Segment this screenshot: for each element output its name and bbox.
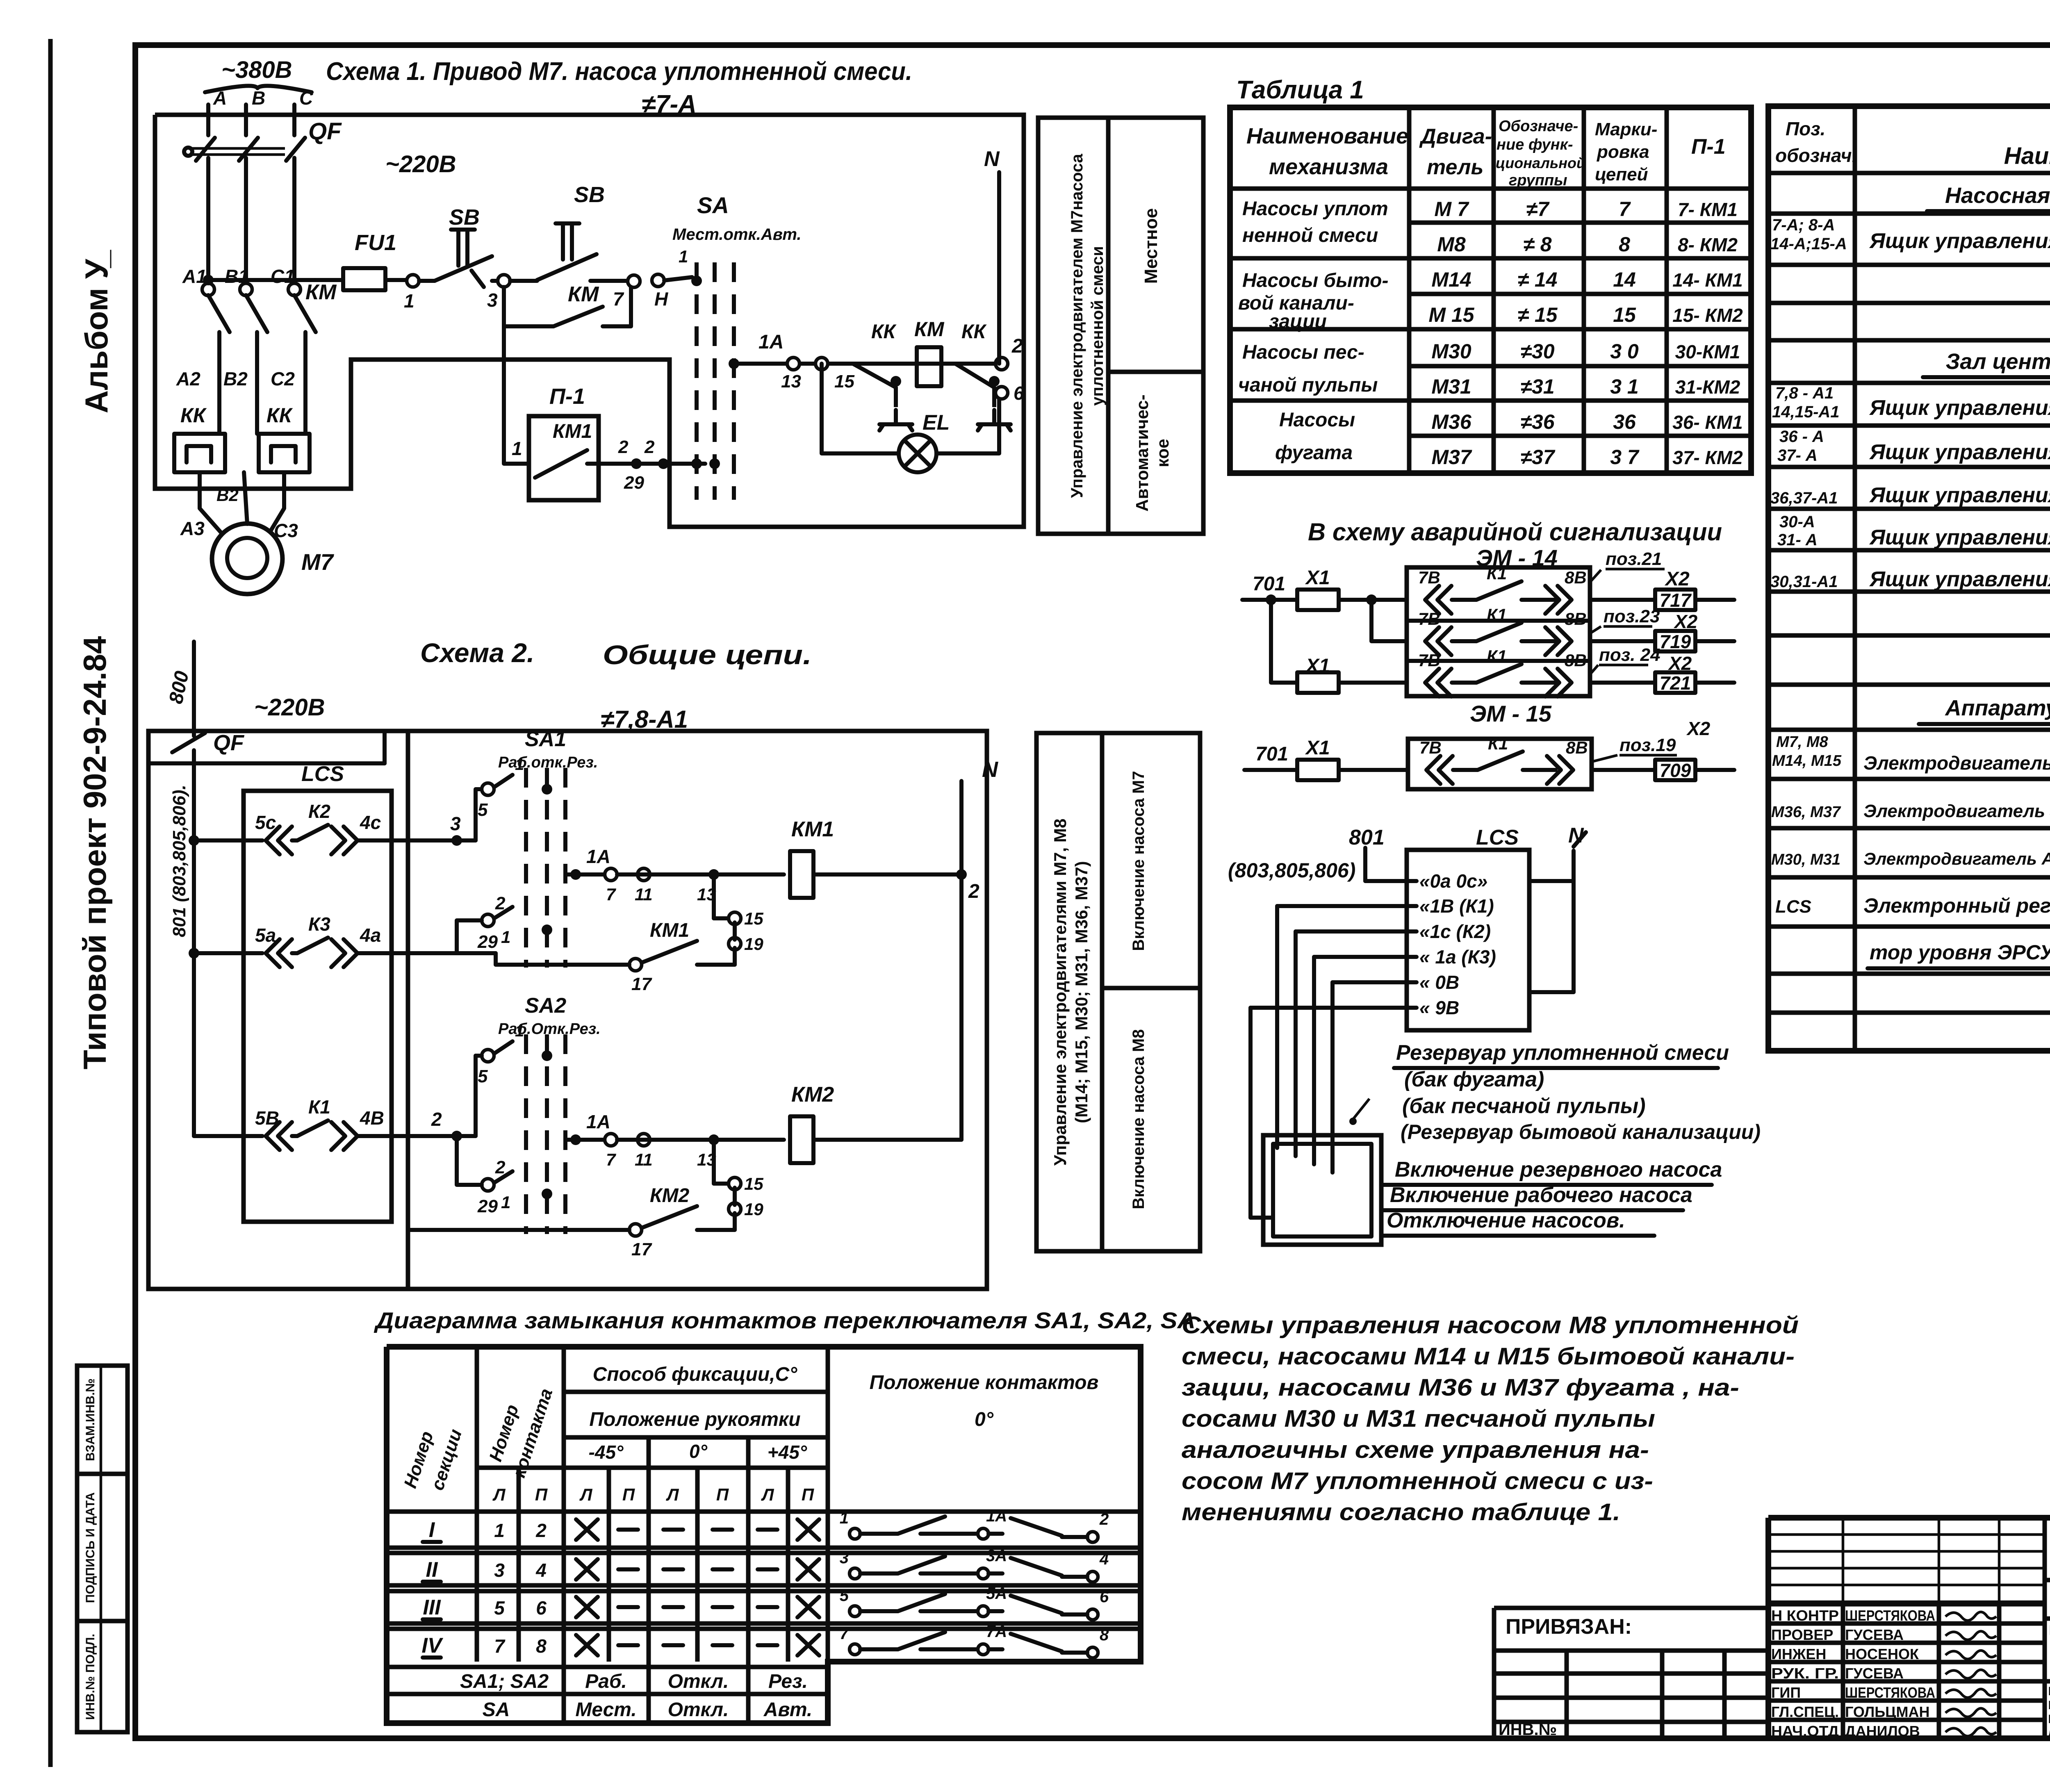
svg-text:37- А: 37- А [1777,446,1818,465]
svg-text:Схемы управления насосом М8: Схемы управления насосом М8 уплотненной [1182,1312,1799,1339]
svg-text:≠ 8: ≠ 8 [1523,233,1551,256]
svg-text:Электродвигатель 4А-100L-4; 4: Электродвигатель 4А-100L-4; 4кВт;~380В [1863,752,2050,774]
branch 15 19 km2 [712,1140,716,1184]
svg-text:Наименование: Наименование [1246,124,1408,148]
svg-text:1: 1 [404,290,415,312]
svg-text:С1: С1 [271,266,295,287]
sidebar scheme1 box [1038,118,1203,534]
svg-text:НАЯ ЭЛЕКТРИЧЕСКАЯ ПРИНЦИПИАЛЬ-: НАЯ ЭЛЕКТРИЧЕСКАЯ ПРИНЦИПИАЛЬ- [2048,1685,2050,1698]
svg-text:7: 7 [840,1625,850,1643]
svg-text:Откл.: Откл. [668,1699,729,1721]
svg-text:7: 7 [613,288,624,310]
relay EM-14 box [1407,567,1590,696]
svg-text:3: 3 [450,813,461,834]
svg-text:Управление электродвигателем М: Управление электродвигателем М7насоса [1068,154,1086,498]
svg-text:ЛИЗАЦИИ М14,М15, ПЕСЧАНОЙ ПУЛЬ: ЛИЗАЦИИ М14,М15, ПЕСЧАНОЙ ПУЛЬПЫ М30, [2048,1726,2050,1740]
svg-text:Ящик управления ЯУ5 117-03А2: Ящик управления ЯУ5 117-03А2Р [1869,229,2050,253]
node 3 [498,275,510,287]
svg-text:зации: зации [1269,311,1327,332]
wire to motor A3 [200,472,221,533]
title block outline [1768,1515,2050,1521]
svg-text:5с: 5с [255,812,276,833]
wire P-1 drop [504,326,529,464]
svg-text:сосом М7 уплотненной смеси: сосом М7 уплотненной смеси с из- [1182,1468,1653,1494]
svg-text:С: С [299,87,313,109]
svg-text:17: 17 [631,974,652,994]
svg-text:Схема 2.: Схема 2. [420,638,534,668]
wire to motor C3 [271,472,284,531]
svg-text:М8: М8 [1437,233,1466,256]
svg-text:уплотненной смеси: уплотненной смеси [1089,246,1107,406]
svg-text:КК: КК [266,404,293,427]
sidebar scheme2 box [1036,733,1200,1251]
svg-text:НАЯ УПРАВЛЕНИЯ НАСОСАМИ УПЛОТ-: НАЯ УПРАВЛЕНИЯ НАСОСАМИ УПЛОТ- [2048,1699,2050,1712]
node 2 SA2 [482,1179,494,1191]
svg-text:36,37-А1: 36,37-А1 [1770,489,1838,507]
wire B2 drop [255,332,259,434]
svg-text:П-1: П-1 [1691,135,1726,159]
svg-text:4: 4 [535,1560,547,1581]
svg-text:6: 6 [1100,1588,1109,1606]
svg-text:П: П [535,1485,548,1504]
svg-text:4а: 4а [360,924,381,946]
wire motor B2 [244,472,247,524]
svg-text:4: 4 [1099,1550,1109,1568]
svg-text:ВЗАМ.ИНВ.№: ВЗАМ.ИНВ.№ [84,1378,97,1461]
contact K1 row3 [1425,669,1451,697]
node 7 [628,275,640,287]
svg-text:LCS: LCS [1775,897,1811,917]
node 13 [787,357,799,370]
svg-text:М14, М15: М14, М15 [1772,752,1842,770]
svg-text:поз.19: поз.19 [1619,735,1676,755]
svg-text:8В: 8В [1565,568,1587,587]
svg-text:поз. 24: поз. 24 [1599,645,1660,665]
svg-text:-45°: -45° [589,1441,624,1463]
svg-text:менениями согласно таблице 1: менениями согласно таблице 1. [1182,1499,1620,1526]
svg-text:« 1а (К3): « 1а (К3) [1419,946,1496,968]
QF compartment line [148,761,385,765]
svg-text:« 9В: « 9В [1419,997,1459,1018]
svg-text:А1: А1 [182,266,207,287]
wire phase B [244,158,248,287]
svg-text:SA: SA [483,1699,510,1721]
svg-text:~220В: ~220В [385,151,456,178]
feeder wire 801 [192,750,196,1136]
svg-text:Электродвигатель АО2-31-4; 2,: Электродвигатель АО2-31-4; 2,2 кВт; ~380… [1863,849,2050,868]
scheme 1 enclosure box [155,115,1024,527]
svg-text:Включение насоса М7: Включение насоса М7 [1130,771,1148,951]
svg-text:3А: 3А [986,1547,1007,1565]
svg-text:Наименование: Наименование [2004,143,2050,169]
parts table rows [1768,212,2050,216]
svg-text:1: 1 [512,438,522,459]
wire C2 drop [303,332,307,434]
svg-text:кое: кое [1153,439,1172,467]
svg-text:цепей: цепей [1595,164,1648,184]
svg-text:К1: К1 [1487,564,1507,583]
svg-text:~380В: ~380В [221,57,292,83]
lcs left feeders [1277,904,1417,908]
svg-text:14- КМ1: 14- КМ1 [1672,269,1742,291]
svg-text:30,31-А1: 30,31-А1 [1770,573,1838,591]
wire row2 to SA1 [457,920,482,953]
svg-text:А2: А2 [176,368,200,389]
svg-text:14: 14 [1613,268,1636,291]
title block name rows [1768,1602,2045,1607]
svg-text:А: А [213,87,227,109]
svg-text:1А: 1А [758,331,784,353]
svg-text:Ящик управления ЯУ5117-03А2Р: Ящик управления ЯУ5117-03А2Р [1869,440,2050,464]
svg-text:29: 29 [624,473,644,493]
title block TP cell [2045,1578,2050,1583]
svg-text:Ящик управления ЯУ5120-03А2А: Ящик управления ЯУ5120-03А2А [1869,567,2050,591]
svg-text:SA2: SA2 [525,994,566,1018]
wire phase C [292,158,296,287]
motor M7 [212,524,282,594]
svg-text:8В: 8В [1565,609,1587,628]
svg-text:Двига-: Двига- [1419,125,1492,148]
node 11 km1 [638,868,650,881]
svg-text:8- КМ2: 8- КМ2 [1678,234,1738,255]
svg-text:Л: Л [666,1485,679,1504]
svg-text:М14: М14 [1431,268,1471,291]
svg-text:М7, М8: М7, М8 [1776,733,1829,751]
svg-text:К1: К1 [308,1096,330,1118]
svg-text:КМ1: КМ1 [791,817,834,841]
svg-text:Альбом У̲: Альбом У̲ [78,250,114,414]
contact K1 row2 [1425,627,1451,655]
svg-text:15- КМ2: 15- КМ2 [1672,305,1743,326]
svg-text:тель: тель [1427,155,1483,179]
node 11 km2 [638,1134,650,1146]
svg-text:К3: К3 [308,913,330,935]
feeder drop scheme2 [192,642,196,736]
svg-text:смеси, насосами М14 и М15 бы: смеси, насосами М14 и М15 бытовой канали… [1182,1343,1795,1370]
svg-text:Насосы: Насосы [1279,409,1355,431]
svg-text:8В: 8В [1565,651,1587,670]
svg-text:1: 1 [840,1509,849,1527]
svg-text:М37: М37 [1431,446,1472,469]
svg-text:29: 29 [477,932,498,952]
node A1 [202,283,214,296]
svg-text:Зал центрифуг: Зал центрифуг [1946,349,2050,374]
branch to row3 [1266,594,1276,605]
svg-text:0°: 0° [689,1441,708,1462]
svg-text:≠30: ≠30 [1520,340,1554,363]
svg-text:3: 3 [840,1549,849,1567]
svg-text:1А: 1А [586,1111,610,1132]
relay EM-15 box [1408,739,1592,789]
svg-text:30-А: 30-А [1779,513,1815,531]
svg-text:КК: КК [180,404,207,427]
svg-text:7- КМ1: 7- КМ1 [1678,199,1738,220]
svg-text:В2: В2 [216,485,239,505]
svg-text:I: I [429,1518,435,1542]
svg-text:КМ2: КМ2 [650,1185,689,1207]
svg-text:7: 7 [494,1635,506,1657]
branch to row2 [1366,594,1377,605]
svg-text:11: 11 [635,885,653,904]
svg-text:Ящик управления ЯУ5117-03А 2 Н: Ящик управления ЯУ5117-03А 2 Н [1869,526,2050,549]
svg-text:701: 701 [1253,573,1285,595]
svg-text:31-КМ2: 31-КМ2 [1675,376,1740,398]
svg-text:Способ фиксации,С°: Способ фиксации,С° [593,1364,798,1385]
node 6 [995,387,1008,399]
svg-text:П: П [802,1485,814,1504]
svg-text:К1: К1 [1487,647,1507,666]
svg-text:М36: М36 [1431,410,1471,433]
svg-text:Л: Л [579,1485,593,1504]
svg-text:N: N [982,757,998,782]
node 15 [815,357,828,370]
svg-text:Л: Л [761,1485,774,1504]
svg-text:тор уровня ЭРСУ-3, ~220В: тор уровня ЭРСУ-3, ~220В [1870,941,2050,964]
svg-text:719: 719 [1660,631,1691,652]
svg-text:+45°: +45° [768,1441,807,1463]
svg-text:зации, насосами М36 и М37 фу: зации, насосами М36 и М37 фугата , на- [1182,1374,1739,1401]
svg-text:А3: А3 [180,518,205,539]
svg-text:Типовой проект 902-9-24.84: Типовой проект 902-9-24.84 [77,636,113,1070]
svg-text:КМ: КМ [305,280,337,304]
contact table grid verticals [475,1347,479,1662]
LCS box [1407,850,1529,1030]
node B1 [240,283,252,296]
svg-text:Местное: Местное [1141,208,1161,284]
wire A2 drop [217,332,221,434]
svg-text:8: 8 [1619,233,1630,256]
svg-text:X1: X1 [1305,567,1330,589]
svg-text:Автоматичес-: Автоматичес- [1132,394,1152,512]
svg-text:Электронный регулятор-сигнали: Электронный регулятор-сигнализа [1863,894,2050,917]
svg-text:КМ: КМ [568,282,599,306]
svg-text:Отключение насосов.: Отключение насосов. [1387,1209,1625,1232]
svg-text:36- КМ1: 36- КМ1 [1672,412,1742,433]
bus brace 380V [205,86,312,92]
svg-text:Общие цепи.: Общие цепи. [603,640,812,670]
svg-text:30-КМ1: 30-КМ1 [1675,341,1740,362]
wire phase C drop [292,105,296,135]
svg-text:обознач.: обознач. [1775,145,1857,166]
wire SB to node 7 [590,279,628,283]
svg-text:Диаграмма замыкания контактов: Диаграмма замыкания контактов переключат… [374,1307,1196,1333]
svg-text:поз.21: поз.21 [1606,549,1662,569]
neutral wire N scheme1 [997,172,1001,364]
svg-text:≠7: ≠7 [1526,198,1549,221]
svg-text:SA: SA [697,192,729,218]
node 2 [995,357,1008,370]
node 5 SA1 [482,783,494,795]
svg-text:2: 2 [1011,335,1023,357]
svg-text:М30: М30 [1431,340,1471,363]
svg-text:X1: X1 [1305,737,1330,759]
svg-text:5А: 5А [986,1585,1007,1603]
svg-text:«1с (К2): «1с (К2) [1419,921,1491,942]
svg-text:801 (803,805,806).: 801 (803,805,806). [169,785,189,937]
svg-text:15: 15 [744,1174,763,1193]
svg-text:1: 1 [501,927,510,947]
svg-text:7: 7 [1619,198,1631,221]
svg-text:IV: IV [421,1634,443,1658]
svg-text:3 7: 3 7 [1610,446,1640,469]
svg-text:LCS: LCS [301,762,344,786]
svg-text:5: 5 [478,1066,488,1086]
svg-text:5: 5 [478,800,488,820]
svg-text:31- А: 31- А [1777,531,1818,549]
svg-text:В схему аварийной сигнализации: В схему аварийной сигнализации [1308,518,1722,546]
svg-text:ние функ-: ние функ- [1496,136,1573,153]
svg-text:7В: 7В [1419,738,1442,757]
svg-text:7В: 7В [1418,651,1440,670]
svg-text:поз.23: поз.23 [1604,606,1660,626]
left stamp box [77,1366,128,1732]
svg-text:Включение насоса М8: Включение насоса М8 [1130,1029,1148,1209]
svg-text:15: 15 [1613,303,1636,326]
svg-text:≠ 15: ≠ 15 [1518,303,1558,326]
wire 1A row KM2 [570,1134,581,1145]
svg-text:Насосы быто-: Насосы быто- [1242,270,1388,291]
svg-text:чаной пульпы: чаной пульпы [1238,374,1378,396]
svg-text:П: П [716,1485,729,1504]
svg-text:SB: SB [574,182,605,207]
svg-text:II: II [426,1558,438,1582]
svg-text:Включение резервного насоса: Включение резервного насоса [1395,1158,1722,1182]
contact KM1 in P-1 [535,450,587,478]
svg-text:(М14; М15, М30; М31, М36, М37): (М14; М15, М30; М31, М36, М37) [1072,861,1091,1123]
svg-text:фугата: фугата [1275,442,1353,464]
svg-text:Раб.: Раб. [585,1671,627,1692]
svg-text:14,15-А1: 14,15-А1 [1772,403,1840,421]
page binding edge line [48,39,53,1767]
svg-text:~220В: ~220В [254,694,325,721]
svg-text:6: 6 [536,1597,547,1619]
sensor leader line [1353,1099,1369,1119]
svg-text:Включение рабочего насоса: Включение рабочего насоса [1390,1183,1692,1207]
branch 15 19 km1 [712,874,716,918]
wire 1A row KM1 [570,869,581,880]
svg-text:7: 7 [606,885,616,904]
contact table grid horizontals [564,1390,828,1394]
svg-text:11: 11 [635,1150,653,1169]
svg-text:2: 2 [495,1157,506,1177]
svg-text:Управление электродвигателями: Управление электродвигателями М7, М8 [1050,819,1070,1166]
svg-text:36 - А: 36 - А [1779,428,1824,446]
svg-text:М 7: М 7 [1434,198,1469,221]
parts table frame [1768,106,2050,1051]
svg-text:ПОДПИСЬ И ДАТА: ПОДПИСЬ И ДАТА [84,1492,97,1603]
svg-text:КМ1: КМ1 [553,421,592,442]
svg-text:«1В (К1): «1В (К1) [1419,895,1494,917]
svg-text:ИНВ.№ ПОДЛ.: ИНВ.№ ПОДЛ. [84,1634,97,1720]
svg-text:М7: М7 [301,549,335,575]
svg-text:Раб.Отк.Рез.: Раб.Отк.Рез. [498,1020,601,1038]
node 5 SA2 [482,1050,494,1062]
contact K1 row1 [1425,586,1451,614]
table 1 grid [1407,107,1412,473]
svg-text:Аппаратура по месту: Аппаратура по месту [1944,696,2050,720]
svg-text:0°: 0° [975,1409,994,1430]
svg-text:4с: 4с [360,812,381,833]
privyazan block [1494,1606,1768,1610]
svg-text:SA1: SA1 [525,727,566,751]
svg-text:группы: группы [1509,172,1567,189]
level relay row K1 [194,1134,262,1138]
svg-text:М36, М37: М36, М37 [1771,804,1841,821]
svg-text:Насосы уплот: Насосы уплот [1242,198,1388,220]
svg-text:В1: В1 [225,266,249,287]
node C1 [288,283,301,296]
inner divider scheme2 [406,731,410,1289]
wire to SA [664,277,692,280]
svg-text:Авт.: Авт. [763,1699,812,1721]
node 7 km2 [605,1134,617,1146]
level relay row K3 [189,948,199,959]
svg-text:«0а 0с»: «0а 0с» [1419,870,1487,892]
svg-text:2: 2 [535,1520,547,1541]
svg-text:1А: 1А [986,1507,1007,1525]
svg-text:13: 13 [781,371,801,392]
svg-text:7: 7 [606,1150,616,1169]
level relay row K2 [189,835,199,846]
svg-text:ДАНИЛОВ: ДАНИЛОВ [1845,1723,1920,1740]
svg-text:FU1: FU1 [355,230,396,255]
svg-text:LCS: LCS [1476,826,1519,849]
svg-text:≠31: ≠31 [1520,375,1554,398]
svg-text:7-А; 8-А: 7-А; 8-А [1772,216,1835,234]
svg-text:SB: SB [449,205,480,230]
svg-text:(803,805,806): (803,805,806) [1228,859,1355,882]
svg-text:1: 1 [515,1022,524,1040]
svg-text:КК: КК [961,321,987,343]
svg-text:сосами М30 и М31 песчаной п: сосами М30 и М31 песчаной пульпы [1182,1405,1655,1432]
svg-text:721: 721 [1660,672,1691,694]
node 13 km1 [708,869,719,880]
svg-text:19: 19 [744,934,763,954]
wire to node 3 [492,279,498,283]
svg-text:17: 17 [631,1239,652,1259]
scheme 2 enclosure box [148,731,987,1289]
svg-text:ИНВ.№: ИНВ.№ [1499,1721,1557,1739]
wire phase A drop [206,105,210,135]
svg-text:QF: QF [213,731,245,755]
svg-text:Мест.: Мест. [575,1699,636,1721]
svg-text:7В: 7В [1418,568,1440,587]
svg-text:5: 5 [494,1597,505,1619]
svg-text:В: В [252,87,265,109]
svg-text:15: 15 [744,909,763,928]
svg-text:7,8 - А1: 7,8 - А1 [1775,384,1834,402]
svg-text:М30, М31: М30, М31 [1771,851,1840,868]
svg-text:X2: X2 [1664,568,1690,590]
svg-text:КМ: КМ [914,318,945,341]
svg-text:EL: EL [922,411,950,435]
wire phase A [206,158,210,287]
svg-text:1: 1 [679,247,688,266]
svg-text:Ящик управления ЯУ5120-03А 2А: Ящик управления ЯУ5120-03А 2А [1869,483,2050,507]
svg-text:3 1: 3 1 [1610,375,1639,398]
svg-text:4В: 4В [360,1107,384,1129]
svg-text:КМ2: КМ2 [791,1083,834,1107]
svg-text:29: 29 [477,1196,498,1216]
wire 1A row [734,362,999,366]
svg-text:Насосы пес-: Насосы пес- [1242,342,1364,363]
svg-text:2: 2 [968,881,979,902]
svg-text:Схема 1. Привод М7. насоса упл: Схема 1. Привод М7. насоса уплотненной с… [326,57,912,86]
svg-text:Насосная станция: Насосная станция [1945,183,2050,208]
svg-text:КМ1: КМ1 [650,920,689,941]
svg-text:1: 1 [501,1193,510,1212]
svg-text:Обозначе-: Обозначе- [1499,118,1578,135]
